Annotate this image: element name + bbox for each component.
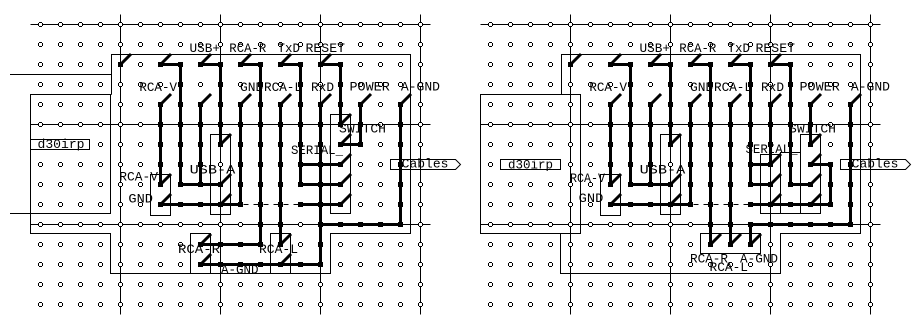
grid ruler columns right xyxy=(570,15,572,315)
wire hidden GND dashed right xyxy=(694,204,749,206)
wire A-GND bottom run (left) xyxy=(201,263,321,266)
pin NC1 hook (left) xyxy=(121,54,132,65)
wire RCA-L net (left) xyxy=(279,105,282,245)
wire RxD net (right) xyxy=(769,105,772,165)
connector J1 body right xyxy=(481,95,581,234)
node Cables flag left xyxy=(391,160,461,170)
wire TxD branch (right) xyxy=(751,163,771,166)
wire USB-plus net (right) xyxy=(651,65,671,145)
connector RCA-V/GND body right xyxy=(601,175,621,216)
pin TxD c hook (right) xyxy=(771,154,782,165)
pin comb a hook (right) xyxy=(771,194,782,205)
pin RESET a hook (right) xyxy=(771,54,782,65)
wire stub A left xyxy=(10,74,112,76)
wire RCA-R net (right) xyxy=(691,65,711,245)
pin RESET b hook (left) xyxy=(341,114,352,125)
wire RCA-V net (right) xyxy=(609,105,612,185)
pin TxD b hook (right) xyxy=(771,174,782,185)
wire RxD net (left) xyxy=(319,105,322,265)
grid ruler rows right xyxy=(481,24,881,26)
pin USB-plus a hook (left) xyxy=(201,54,212,65)
pin RCA-L b hook (left) xyxy=(281,234,292,245)
pin POWER a hook (right) xyxy=(811,94,822,105)
board outline right xyxy=(481,55,861,274)
wire switch feed (left) xyxy=(301,203,341,206)
svg-text:RxD: RxD xyxy=(761,81,784,95)
component d30irp left label box xyxy=(31,140,90,150)
svg-text:RCA-V: RCA-V xyxy=(570,172,605,186)
pin GND c hook (right) xyxy=(671,194,682,205)
pin GND b hook (right) xyxy=(611,194,622,205)
svg-text:Cables: Cables xyxy=(402,158,449,172)
svg-text:A-GND: A-GND xyxy=(851,81,890,95)
ruler overdraw across flags xyxy=(420,160,422,170)
node Cables flag right xyxy=(841,160,911,170)
svg-text:GND: GND xyxy=(128,193,153,207)
pin TxD c hook (left) xyxy=(341,154,352,165)
pin RESET a hook (left) xyxy=(321,54,332,65)
svg-text:USB+: USB+ xyxy=(640,42,671,56)
svg-text:RESET: RESET xyxy=(756,42,796,56)
pin RCA-R b hook (right) xyxy=(711,234,722,245)
wire USB-minus net (left) xyxy=(161,65,221,185)
svg-text:Cables: Cables xyxy=(852,158,899,172)
pin A-GND b hook (right) xyxy=(751,234,762,245)
wire A-GND net (right) xyxy=(751,105,851,245)
pin USB-minus b hook (left) xyxy=(221,174,232,185)
wire GND run (left) xyxy=(161,203,241,206)
wire RCA-R net (left) xyxy=(201,65,261,245)
perfboard hole grid left xyxy=(30,14,431,315)
svg-text:POWER: POWER xyxy=(800,81,841,95)
connector RCA jacks body right xyxy=(761,155,781,214)
board outline left xyxy=(31,55,411,274)
pin GND c hook (left) xyxy=(221,194,232,205)
connector RCA-L jack body left xyxy=(271,234,291,274)
wire RCA-V net (left) xyxy=(159,105,162,185)
solder dots (right) xyxy=(568,62,853,247)
pin TxD a hook (left) xyxy=(281,54,292,65)
pin A-GND a hook (right) xyxy=(851,94,862,105)
wire RESET net (left) xyxy=(321,65,341,125)
svg-text:RCA-L: RCA-L xyxy=(264,81,302,95)
pin RCA-L a hook (left) xyxy=(281,94,292,105)
pin USB-plus a hook (right) xyxy=(651,54,662,65)
svg-text:GND: GND xyxy=(579,192,604,206)
wire GND drop (left) xyxy=(239,105,242,205)
pin GND a hook (left) xyxy=(241,94,252,105)
pin POWER b hook (right) xyxy=(811,134,822,145)
wire USB-minus net (right) xyxy=(611,65,671,185)
connector RCA combo body right xyxy=(701,234,761,254)
svg-text:RCA-V: RCA-V xyxy=(139,81,177,95)
solder dots (left) xyxy=(118,62,403,267)
connector RCA-V/GND body left xyxy=(151,175,171,216)
pin RxD a hook (right) xyxy=(771,94,782,105)
connector J1 body left xyxy=(31,95,111,214)
pin RCA-V b hook (left) xyxy=(161,174,172,185)
wire POWER net (right) xyxy=(809,105,812,145)
svg-text:RCA-R: RCA-R xyxy=(229,42,266,56)
pin A-GND c hook (left) xyxy=(201,254,212,265)
wire GND run (right) xyxy=(611,203,691,206)
pin A-GND b hook (left) xyxy=(281,254,292,265)
wire A-GND net (left) xyxy=(321,105,401,225)
pin RCA-L a hook (right) xyxy=(731,94,742,105)
connector USB-A body left xyxy=(211,135,231,215)
svg-text:A-GND: A-GND xyxy=(401,81,440,95)
pin A-GND a hook (left) xyxy=(401,94,412,105)
connector SWITCH body right xyxy=(801,135,821,214)
wire TxD net (right) xyxy=(731,65,771,185)
wire VCC net (left) xyxy=(199,105,202,185)
grid ruler rows left xyxy=(31,24,431,26)
wire serial comb (right) xyxy=(751,165,831,205)
svg-text:RCA-L: RCA-L xyxy=(714,81,752,95)
svg-text:USB+: USB+ xyxy=(190,42,221,56)
svg-text:d30irp: d30irp xyxy=(38,138,85,152)
wire USB-plus net (left) xyxy=(201,65,221,145)
pin RCA-V a hook (left) xyxy=(161,94,172,105)
connector SWITCH/SERIAL body left xyxy=(331,115,351,214)
pin VCC a hook (left) xyxy=(201,94,212,105)
pin TxD a hook (right) xyxy=(731,54,742,65)
pin comb c hook (right) xyxy=(811,154,822,165)
wire TxD net (left) xyxy=(281,65,341,185)
component d30irp right label box xyxy=(501,160,561,170)
wire VCC net (right) xyxy=(649,105,652,185)
wire POWER net (left) xyxy=(341,105,361,145)
connector RCA-R jack body left xyxy=(191,234,211,274)
grid ruler columns left xyxy=(120,15,122,315)
svg-text:TxD: TxD xyxy=(278,42,301,56)
pin GND a hook (right) xyxy=(691,94,702,105)
pin RCA-V b hook (right) xyxy=(611,174,622,185)
pin RCA-R a hook (left) xyxy=(241,54,252,65)
connector USB-A body right xyxy=(661,135,681,215)
svg-text:RCA-V: RCA-V xyxy=(119,171,158,185)
pin comb b hook (right) xyxy=(811,194,822,205)
svg-text:RCA-L: RCA-L xyxy=(710,261,749,275)
pin RxD a hook (left) xyxy=(321,94,332,105)
pin POWER a hook (left) xyxy=(361,94,372,105)
pin POWER b hook (left) xyxy=(341,134,352,145)
connector SERIAL body right xyxy=(781,153,801,214)
pin switch feed hook (left) xyxy=(341,194,352,205)
perfboard hole grid right xyxy=(480,14,881,315)
pin RESET b hook (right) xyxy=(811,174,822,185)
wire stub B left xyxy=(10,213,31,215)
pin USB-plus b hook (right) xyxy=(671,134,682,145)
svg-text:RCA-V: RCA-V xyxy=(589,81,627,95)
svg-text:d30irp: d30irp xyxy=(508,159,553,173)
wire hidden GND dashed left xyxy=(244,204,299,206)
wire RESET net (right) xyxy=(771,65,811,185)
pin RCA-V a hook (right) xyxy=(611,94,622,105)
pin TxD b hook (left) xyxy=(341,174,352,185)
pin RCA-R b hook (left) xyxy=(201,234,212,245)
pin USB-minus b hook (right) xyxy=(671,174,682,185)
svg-text:RESET: RESET xyxy=(306,42,346,56)
svg-text:TxD: TxD xyxy=(728,42,751,56)
svg-text:POWER: POWER xyxy=(350,81,391,95)
pin RCA-R a hook (right) xyxy=(691,54,702,65)
svg-text:RxD: RxD xyxy=(311,81,334,95)
wire RCA-L net (right) xyxy=(729,105,732,245)
wire GND drop (right) xyxy=(689,105,692,205)
pin VCC a hook (right) xyxy=(651,94,662,105)
wire TxD branch (left) xyxy=(301,163,341,166)
pin USB-minus a hook (right) xyxy=(611,54,622,65)
pin NC1 hook (right) xyxy=(571,54,582,65)
pin RCA-L b hook (right) xyxy=(731,234,742,245)
pin GND b hook (left) xyxy=(161,194,172,205)
svg-text:RCA-R: RCA-R xyxy=(679,42,716,56)
pin USB-minus a hook (left) xyxy=(161,54,172,65)
pin USB-plus b hook (left) xyxy=(221,134,232,145)
